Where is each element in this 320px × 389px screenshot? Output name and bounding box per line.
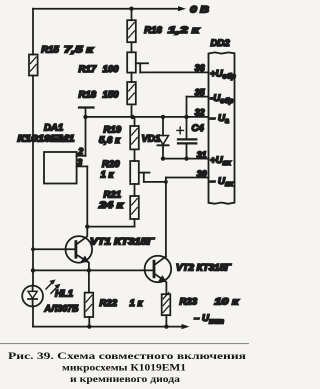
node DA1 pin 3 <box>77 157 88 167</box>
node junction VT1 base rail <box>31 247 35 251</box>
wire DD2 pin30 <box>166 177 209 179</box>
svg-text:5,6 к: 5,6 к <box>99 135 121 146</box>
svg-text:VT1 КТ315Г: VT1 КТ315Г <box>90 236 155 247</box>
resistor R17 (trimmer) <box>79 52 149 75</box>
svg-text:+Uвх: +Uвх <box>210 155 232 167</box>
svg-text:+Uобр: +Uобр <box>210 69 236 81</box>
node junction C4 top <box>184 115 188 119</box>
svg-text:R22: R22 <box>100 298 118 309</box>
node DD2 pin 32 <box>195 108 229 126</box>
node junction C4 bottom <box>184 156 188 160</box>
resistor R18 <box>79 73 136 117</box>
svg-text:35: 35 <box>195 87 205 97</box>
wire R17 wiper to DD2 pin36 <box>140 71 208 73</box>
wire common rail pin32 <box>86 116 209 118</box>
svg-text:микросхемы К1019ЕМ1: микросхемы К1019ЕМ1 <box>62 363 186 374</box>
svg-text:31: 31 <box>197 150 207 160</box>
svg-text:100: 100 <box>103 64 120 75</box>
node 0 B label <box>190 5 209 16</box>
node junction R16 top <box>129 7 133 11</box>
transistor VT1 KT315G <box>33 227 155 293</box>
node junction VD1 bottom <box>161 156 165 160</box>
svg-text:Рис. 39. Схема совместного вкл: Рис. 39. Схема совместного включения <box>8 351 246 362</box>
caption text <box>8 351 246 385</box>
resistor R19 <box>99 117 139 161</box>
transistor VT2 KT315G <box>145 256 233 295</box>
resistor R15 <box>29 45 95 76</box>
resistor R23 <box>162 293 240 327</box>
node -Upit label <box>194 313 225 326</box>
capacitor C4 <box>177 97 204 159</box>
wire left rail middle <box>32 76 34 286</box>
wire left rail lower <box>32 306 34 326</box>
svg-text:VD1: VD1 <box>142 134 161 145</box>
wire bottom rail -Upit <box>33 324 190 329</box>
svg-text:С4: С4 <box>192 123 205 134</box>
svg-text:– Uвх: – Uвх <box>210 176 234 188</box>
node DD2 pin 30 <box>197 169 235 188</box>
diode VD1 <box>142 117 169 159</box>
svg-text:32: 32 <box>195 108 205 118</box>
op-amp DA1 K1019EM1 box <box>18 123 77 184</box>
node DA1 pin 2 <box>77 147 86 157</box>
svg-text:R17: R17 <box>79 64 97 75</box>
resistor R21 <box>98 184 139 227</box>
resistor R22 <box>85 293 144 327</box>
wire top rail 0V <box>33 6 186 11</box>
svg-text:30: 30 <box>197 169 207 179</box>
node DA1 pin2 terminal T-cap <box>79 108 94 156</box>
svg-text:R23: R23 <box>180 297 198 308</box>
svg-text:– Uа: – Uа <box>210 113 229 125</box>
svg-text:R21: R21 <box>104 189 122 200</box>
wire R21 bottom to DA1/VT1 node <box>85 224 134 228</box>
svg-text:1,2 к: 1,2 к <box>168 25 201 36</box>
node junction R22 bottom <box>87 324 91 328</box>
svg-text:HL1: HL1 <box>55 289 73 300</box>
wire R20 wiper to pin30 net <box>144 180 168 184</box>
node junction R18/R19 <box>130 115 134 119</box>
svg-text:DD2: DD2 <box>211 38 231 49</box>
svg-text:DA1: DA1 <box>44 123 63 134</box>
svg-text:1 к: 1 к <box>101 170 115 181</box>
wire DD2 pin35 <box>187 96 209 98</box>
svg-text:R19: R19 <box>104 125 122 136</box>
node DD2 pin 31 <box>197 150 232 167</box>
svg-text:R20: R20 <box>102 159 120 170</box>
LED HL1 AL307B <box>22 279 78 314</box>
IC DD2 box <box>209 38 235 204</box>
wire left rail upper <box>32 9 34 55</box>
resistor R20 (trimmer) <box>101 159 150 184</box>
wire pin30 down to VT2 collector <box>165 178 167 257</box>
wire DD2 pin31 <box>163 158 209 160</box>
svg-text:R18: R18 <box>79 90 97 101</box>
svg-text:АЛ307Б: АЛ307Б <box>44 304 79 315</box>
caption rule <box>0 343 249 344</box>
svg-text:и кремниевого диода: и кремниевого диода <box>70 374 180 385</box>
svg-text:0 В: 0 В <box>190 5 209 16</box>
svg-text:-Uобр: -Uобр <box>210 93 234 105</box>
svg-text:– Uпит: – Uпит <box>194 313 225 326</box>
node DD2 pin 35 <box>195 87 234 105</box>
node junction VD1 top <box>161 115 165 119</box>
wire DA1 pin3 down to VT1 collector <box>86 166 88 226</box>
node junction R23 bottom <box>164 324 168 328</box>
svg-text:VT2 КТ315Г: VT2 КТ315Г <box>176 262 232 273</box>
node DD2 pin 36 <box>195 63 237 81</box>
wire VT2 base net <box>31 268 153 272</box>
svg-text:3: 3 <box>77 157 82 167</box>
svg-text:24 к: 24 к <box>98 200 125 211</box>
svg-text:7,5 к: 7,5 к <box>64 45 95 56</box>
svg-text:К1019ЕМ1: К1019ЕМ1 <box>18 134 75 145</box>
resistor R16 <box>127 9 200 53</box>
svg-text:1 к: 1 к <box>130 298 144 309</box>
svg-text:36: 36 <box>195 63 205 73</box>
svg-text:10 к: 10 к <box>214 297 239 308</box>
svg-text:150: 150 <box>103 90 120 101</box>
svg-text:R16: R16 <box>144 25 162 36</box>
svg-text:2: 2 <box>77 147 83 157</box>
svg-text:R15: R15 <box>41 45 59 56</box>
